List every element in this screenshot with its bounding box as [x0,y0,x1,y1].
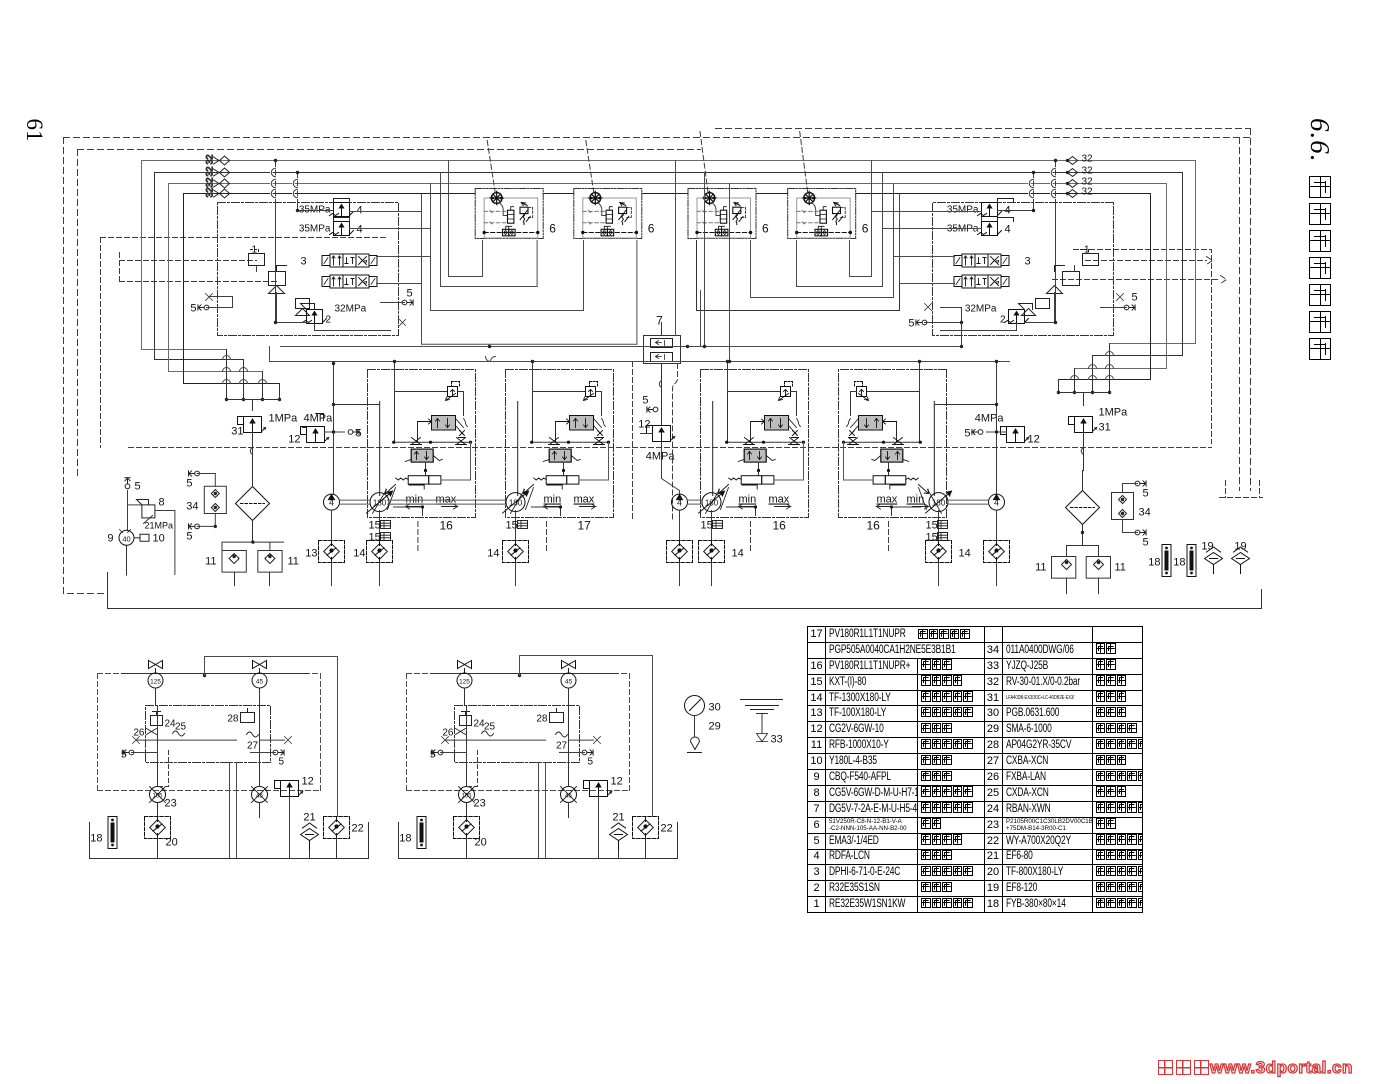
svg-text:9: 9 [107,533,113,545]
test point 5 left of right block [908,304,963,330]
svg-text:20: 20 [166,837,178,849]
svg-text:31: 31 [231,426,243,438]
valve 28 [227,709,254,725]
svg-text:2: 2 [1000,315,1006,326]
svg-text:28: 28 [536,714,548,725]
pump right [252,787,268,803]
valve 27 [556,732,568,752]
svg-text:19: 19 [1201,541,1213,553]
svg-text:32: 32 [1082,166,1094,177]
wire: motor block legs right pair [697,212,900,311]
flex joint 15 [506,520,528,532]
svg-text:16: 16 [440,519,454,533]
wire: case drain dashed [417,522,419,551]
wire: main bus 3 [169,184,1167,372]
svg-text:5: 5 [135,481,141,493]
svg-text:35MPa: 35MPa [299,224,331,235]
svg-text:180: 180 [932,498,946,507]
svg-text:5: 5 [908,318,914,330]
wire: main bus 2 [155,173,1183,360]
svg-text:29: 29 [709,721,721,733]
svg-text:4MPa: 4MPa [646,451,676,463]
svg-text:max: max [877,494,898,506]
valve 1 [1075,250,1099,272]
test point 5 upper right [1123,481,1149,500]
svg-text:6: 6 [762,222,769,236]
wire: pilot dashed lines left [101,238,389,448]
pump right [561,787,577,803]
pump unit box 16 at x=700 [701,370,809,533]
svg-text:12: 12 [611,776,623,788]
svg-text:6: 6 [862,222,869,236]
svg-text:12: 12 [302,776,314,788]
suction filter 20 [145,817,178,859]
valve 26 [133,728,156,739]
svg-text:8: 8 [159,497,165,509]
svg-text:23: 23 [474,798,486,810]
svg-text:40: 40 [122,535,130,544]
wire: block outputs to valve block right [872,212,982,284]
test point 5 upper left [186,471,215,490]
check valves 11 right [1035,542,1126,594]
svg-text:12: 12 [288,434,300,446]
svg-text:5: 5 [1143,488,1149,500]
svg-text:20: 20 [475,837,487,849]
throttle 25 [173,722,187,737]
wire: main bus 1 [142,161,1196,350]
wire: box16 feed stub [393,360,396,392]
svg-text:10: 10 [153,533,165,545]
svg-text:105: 105 [461,794,472,800]
svg-text:23: 23 [165,798,177,810]
oil tank subcircuit B [399,661,678,859]
node: left return manifold [225,350,281,411]
test point 5 lower left [186,524,217,543]
tank vent 33 [741,700,783,746]
relief 12 sub [584,776,623,797]
svg-text:15: 15 [926,532,938,544]
suction filter 14 at x=711 [699,511,744,586]
pressure gauge 30 [685,696,721,753]
svg-text:33: 33 [771,734,783,746]
svg-text:5: 5 [430,750,436,761]
pump shaft [948,500,989,504]
svg-text:180: 180 [705,498,719,507]
pump 4 at x=679 [672,494,688,510]
wire: dashed lead to motor 1 [487,141,495,193]
svg-text:18: 18 [90,833,102,845]
valve block assembly items 1-4 (left) [218,159,399,336]
motor block 6 #4 [788,189,869,239]
pilot relief 2 [296,299,310,316]
valve block assembly items 1-4 (right) [933,159,1114,336]
relief 12 sub [275,776,314,797]
svg-text:11: 11 [1035,562,1046,574]
test point 5 left-block [190,294,232,315]
suction filter 14 at x=938 [926,511,971,586]
box 34 left [186,474,226,527]
pump unit box 16 at x=367 [368,370,476,533]
valve 7 assembly [644,291,701,373]
svg-text:15: 15 [369,520,381,532]
svg-text:1MPa: 1MPa [269,413,299,425]
wire: left dashed drop [64,138,108,594]
wire: top control dashed rail [64,137,1254,139]
svg-text:28: 28 [227,714,239,725]
ball valve 33-type [148,661,163,689]
svg-text:14: 14 [732,548,744,560]
motor block 6 #2 [574,189,655,239]
pump unit box 17 at x=505 [506,370,614,533]
svg-text:4MPa: 4MPa [304,413,334,425]
wire: pilot dashed bottom [129,447,1212,449]
pump shaft [688,500,703,504]
svg-text:22: 22 [352,823,364,835]
svg-text:5: 5 [190,303,196,315]
wire: dashed lead to motor 3 [700,132,708,193]
wire: case drain dashed [750,522,752,551]
test point 5 right of left block [381,288,414,326]
svg-text:45: 45 [256,794,263,800]
svg-text:32MPa: 32MPa [335,304,367,315]
wire: right boxA feed stub [726,360,729,392]
svg-text:5: 5 [407,288,413,300]
svg-text:18: 18 [1148,557,1160,569]
ball valve 33-type [561,661,576,689]
svg-text:4: 4 [994,497,999,507]
valve 1 [249,250,265,272]
filter main right [1066,471,1100,546]
svg-text:21MPa: 21MPa [145,521,174,531]
reducing valve [269,266,287,294]
svg-text:1: 1 [252,245,258,256]
pilot relief 2 [1022,299,1050,316]
svg-text:35MPa: 35MPa [947,205,979,216]
svg-text:5: 5 [1132,292,1138,304]
ball valve 33-type [457,661,472,689]
return filter 22 [633,817,673,859]
svg-text:2: 2 [326,315,332,326]
svg-text:5: 5 [964,428,970,440]
svg-text:32: 32 [1082,187,1094,198]
relief valve 31 (1MPa) left [231,413,298,471]
svg-text:14: 14 [959,548,971,560]
oil tank subcircuit A [90,661,369,859]
svg-text:19: 19 [1234,541,1246,553]
pump shaft [388,500,507,504]
relief 8 (21MPa) [125,478,175,575]
svg-text:5: 5 [642,395,648,407]
wire: second control dashed rail [78,129,1251,150]
svg-text:34: 34 [186,501,198,513]
svg-text:min: min [739,494,757,506]
svg-text:15: 15 [926,520,938,532]
relief valve 31 (1MPa) right [1069,407,1129,471]
svg-text:1MPa: 1MPa [1099,407,1129,419]
svg-text:5: 5 [356,428,362,440]
wire: subcircuit A return feed [203,657,338,817]
pump 23 [459,787,486,810]
svg-text:25: 25 [484,722,496,733]
wire: risers to buses right [872,161,900,284]
svg-text:13: 13 [305,548,317,560]
svg-text:14: 14 [487,548,499,560]
suction filter 20 [454,817,487,859]
flex joint 15 [926,520,948,544]
svg-text:15: 15 [369,532,381,544]
SEC:html [807,626,1143,913]
svg-text:31: 31 [1099,422,1111,434]
svg-text:22: 22 [661,823,673,835]
relief valve 12 (4MPa) left [288,362,379,494]
page number 61 [22,108,46,152]
wire: risers to buses left [422,161,449,284]
svg-text:32MPa: 32MPa [965,304,997,315]
svg-text:21: 21 [612,812,624,824]
port: left 32 connectors [205,154,230,198]
svg-text:125: 125 [150,679,161,686]
air filters 19 [1201,541,1249,574]
svg-text:3: 3 [300,256,306,268]
wire: box17 feed stub [531,360,534,392]
wire: center feeds [676,161,732,364]
svg-text:30: 30 [709,702,721,714]
svg-text:125: 125 [459,679,470,686]
wire: main bus 4 [184,194,1151,384]
pump 180 at x=515 [503,491,529,513]
wire: case drain dashed [546,522,548,551]
pump 23 [150,787,177,810]
svg-text:4: 4 [677,497,682,507]
suction filter item at x=679 [667,511,693,586]
svg-text:min: min [907,494,925,506]
svg-text:4: 4 [357,205,363,217]
throttle 25 [482,722,496,737]
reducing valve [1047,266,1080,294]
wire: lower center bus [270,347,1010,362]
port: right 32 connectors [1066,154,1093,198]
svg-text:27: 27 [247,741,259,752]
test point 5 L [121,750,157,761]
suction filter 14 at x=515 [487,511,528,586]
svg-text:25: 25 [175,722,187,733]
svg-text:32: 32 [1082,154,1094,165]
pump 4 at x=331 [324,494,340,510]
svg-text:5: 5 [279,757,285,768]
svg-text:180: 180 [509,498,523,507]
valve 12 center (4MPa) [638,373,679,494]
suction filter 13 at x=331 [305,511,344,586]
motor block 6 #3 [688,189,769,239]
svg-text:14: 14 [353,548,365,560]
valve 24 [460,712,486,730]
svg-text:16: 16 [867,519,881,533]
wire: right boxB feed stub [918,360,921,392]
wire: main tank return line [108,573,1262,609]
wire: center bus [281,323,964,349]
svg-text:32: 32 [205,154,215,164]
svg-text:27: 27 [556,741,568,752]
wire: dashed drains center [633,362,678,521]
svg-text:21: 21 [303,812,315,824]
svg-text:34: 34 [1139,507,1151,519]
wire: block outputs to valve block left [350,212,431,284]
wire: case drain dashed [888,522,890,551]
level gauges 18 [1148,545,1196,577]
valve 26 [442,728,465,739]
return filter 22 [324,817,364,859]
level gauge 18 sub [399,817,426,849]
svg-text:45: 45 [565,794,572,800]
svg-text:5: 5 [186,531,192,543]
wire: dashed lead to motor 4 [800,132,808,193]
suction filter item at x=996 [984,511,1010,586]
pump unit box 16 at x=838 [839,370,947,533]
test point 5 lower right [1081,530,1149,549]
svg-text:18: 18 [399,833,411,845]
svg-text:4: 4 [329,497,334,507]
level gauge 18 sub [90,817,117,849]
pump 180 at x=938 [926,491,952,513]
filter 14 main left [236,471,270,542]
svg-text:45: 45 [565,679,573,686]
wire: bus hop arcs [223,352,1114,384]
wire: pilot dashed right box [1053,250,1227,444]
check valves 11 left [205,537,299,586]
pump 180 at x=379 [367,491,393,513]
svg-text:min: min [544,494,562,506]
svg-text:5: 5 [186,478,192,490]
svg-text:32: 32 [205,166,215,176]
svg-text:32: 32 [205,177,215,187]
svg-text:11: 11 [288,556,299,568]
air filter 21 [301,812,319,859]
valve 27 [247,732,259,752]
box 34 right [1112,484,1151,533]
relief valve 12 (4MPa) right [935,360,1040,494]
svg-text:45: 45 [256,679,264,686]
svg-text:4: 4 [1005,224,1011,236]
svg-text:11: 11 [205,556,216,568]
min max labels [877,494,929,510]
pump shaft [340,500,370,504]
valve 28 [536,709,563,725]
node: right return manifold [1057,344,1111,406]
svg-text:6: 6 [648,222,655,236]
test point 5 L [430,750,466,761]
test point 5 R [560,750,594,768]
svg-text:15: 15 [506,520,518,532]
svg-text:7: 7 [656,314,663,328]
svg-text:3: 3 [1024,256,1030,268]
svg-text:17: 17 [578,519,592,533]
air filter 21 [610,812,628,859]
flex joint 15 [701,520,723,532]
valve 24 [151,712,177,730]
svg-text:1: 1 [1084,245,1090,256]
min max labels [739,494,791,510]
suction filter 14 at x=379 [353,511,392,586]
pump 4 at x=996 [989,494,1005,510]
svg-text:16: 16 [773,519,787,533]
svg-text:5: 5 [1143,537,1149,549]
test point 5 right-block right [1101,292,1138,311]
svg-text:15: 15 [701,520,713,532]
svg-text:5: 5 [121,750,127,761]
gear pump 9 [107,530,164,576]
watermark [1156,1058,1353,1080]
svg-text:180: 180 [373,498,387,507]
test point 5 R [251,750,285,768]
svg-text:32: 32 [205,187,215,197]
svg-text:5: 5 [588,757,594,768]
pump 180 at x=711 [699,491,725,513]
svg-text:4MPa: 4MPa [975,413,1005,425]
svg-text:11: 11 [1115,562,1126,574]
flex joint 15 [369,520,391,544]
svg-text:12: 12 [1028,434,1040,446]
min max labels [544,494,596,510]
min max labels [406,494,458,510]
svg-text:12: 12 [638,419,650,431]
wire: dashed lead to motor 2 [586,141,594,193]
svg-text:6: 6 [549,222,556,236]
wire: right dashed drops [1220,129,1263,498]
wire: subcircuit B return feed [518,656,653,817]
ball valve 33-type [252,661,267,689]
svg-text:105: 105 [152,794,163,800]
drawing title (vertical): 6.6. hydraulic system schematic [1302,118,1336,378]
motor block 6 #1 [475,189,556,239]
wire: motor block legs left pair [422,212,637,345]
svg-text:18: 18 [1173,557,1185,569]
svg-text:4: 4 [357,224,363,236]
